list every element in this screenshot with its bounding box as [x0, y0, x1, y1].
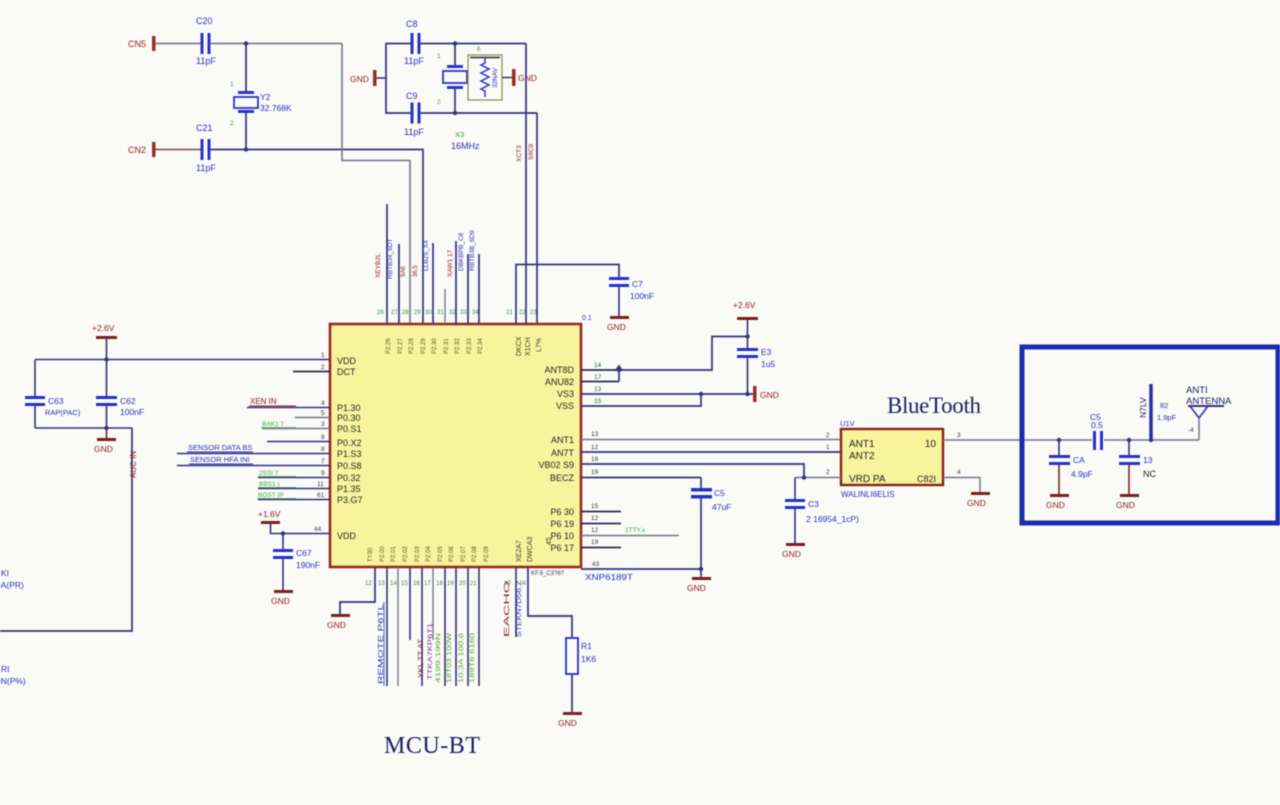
- svg-text:GND: GND: [327, 620, 346, 630]
- wire node down to Y2: [245, 44, 247, 93]
- svg-text:KF.9_C3?6?: KF.9_C3?6?: [531, 571, 565, 577]
- wire bottom pin 5: [421, 567, 423, 686]
- svg-text:P2.03: P2.03: [415, 546, 421, 562]
- svg-text:C20: C20: [196, 16, 213, 26]
- power +2.6V right: [733, 300, 758, 349]
- svg-text:2 16954_1cP): 2 16954_1cP): [806, 514, 859, 524]
- svg-text:28: 28: [402, 310, 409, 316]
- svg-text:P2.08: P2.08: [472, 546, 478, 562]
- svg-text:XEN IN: XEN IN: [250, 397, 277, 406]
- svg-text:32.768K: 32.768K: [260, 103, 292, 113]
- off page label RI (WEPR): [0, 664, 26, 686]
- svg-text:P2.32: P2.32: [455, 338, 461, 354]
- svg-text:Y2: Y2: [260, 92, 271, 102]
- capacitor C9: [404, 91, 424, 137]
- svg-text:BOST IP: BOST IP: [258, 492, 284, 499]
- svg-text:9A(PR): 9A(PR): [0, 580, 24, 590]
- svg-text:E3: E3: [761, 347, 772, 357]
- svg-text:GND: GND: [558, 718, 577, 728]
- svg-text:SENSOR DATA BS: SENSOR DATA BS: [188, 443, 252, 452]
- svg-text:XE2A7: XE2A7: [516, 540, 523, 562]
- ground under C62: [94, 428, 116, 454]
- svg-text:1TTY.x: 1TTY.x: [625, 527, 646, 534]
- svg-text:ANT1: ANT1: [849, 439, 875, 450]
- svg-text:C67: C67: [296, 548, 312, 558]
- svg-text:P2.27: P2.27: [398, 338, 404, 354]
- svg-text:C82I: C82I: [917, 474, 936, 484]
- svg-text:C3: C3: [808, 499, 819, 509]
- svg-text:C62: C62: [120, 396, 136, 406]
- svg-text:189T6 6160: 189T6 6160: [470, 632, 476, 683]
- ground bottom left: [327, 614, 350, 630]
- svg-text:RI: RI: [1, 664, 10, 674]
- ground under L3: [1116, 494, 1139, 510]
- wire R1 to ground: [571, 674, 573, 712]
- svg-text:ANT1: ANT1: [551, 435, 574, 445]
- wire module pin 10 to antenna: [943, 439, 1092, 441]
- svg-text:XNP6189T: XNP6189T: [585, 573, 633, 582]
- svg-text:8: 8: [321, 446, 325, 453]
- svg-text:C9: C9: [406, 91, 418, 101]
- node crystal top: [453, 41, 457, 45]
- wire module pin 4 to gnd: [943, 478, 980, 493]
- svg-text:P3.G7: P3.G7: [337, 495, 363, 505]
- svg-text:YKL TT AT: YKL TT AT: [418, 638, 425, 678]
- svg-text:GND: GND: [687, 583, 706, 593]
- svg-text:P0.X2: P0.X2: [337, 438, 362, 448]
- svg-text:19: 19: [591, 469, 599, 476]
- svg-text:21: 21: [506, 310, 513, 316]
- wire bottom pin 7: [444, 567, 446, 686]
- svg-text:19: 19: [591, 539, 599, 546]
- port CN2: [128, 142, 156, 157]
- VB02 S9 row to module VRD: [581, 464, 804, 478]
- resistor R1: [566, 638, 596, 674]
- svg-text:GND: GND: [760, 390, 779, 400]
- svg-text:XEYB2L: XEYB2L: [375, 253, 382, 278]
- svg-text:12: 12: [591, 444, 599, 451]
- svg-text:CN2: CN2: [128, 145, 146, 155]
- P6.10 row with net label: [581, 535, 679, 537]
- svg-text:P2.05: P2.05: [438, 546, 444, 562]
- wire bottom pin 6: [432, 567, 434, 640]
- svg-text:47uF: 47uF: [712, 502, 731, 512]
- ground right of oscillator: [512, 69, 537, 86]
- svg-text:DWCA3: DWCA3: [527, 537, 534, 562]
- wire top pin extra: [478, 254, 480, 324]
- svg-text:12: 12: [591, 515, 599, 522]
- svg-text:BlueTooth: BlueTooth: [887, 393, 982, 418]
- svg-text:44: 44: [314, 526, 322, 533]
- svg-text:P2.04: P2.04: [426, 546, 432, 562]
- svg-text:ANTI: ANTI: [1186, 385, 1208, 396]
- svg-text:CN5: CN5: [128, 39, 146, 49]
- svg-text:VRD PA: VRD PA: [849, 474, 886, 485]
- svg-text:ANU82: ANU82: [545, 377, 574, 387]
- wire top pin RBTB2: [467, 254, 469, 324]
- svg-text:1.9pF: 1.9pF: [1157, 413, 1177, 422]
- svg-text:43: 43: [592, 561, 600, 568]
- svg-text:GND: GND: [350, 74, 369, 84]
- wire bottom pin 1 to gnd: [340, 567, 375, 614]
- wire bottom rail of decoupling caps: [35, 427, 132, 429]
- svg-text:RBTB3B_6D9: RBTB3B_6D9: [469, 230, 476, 271]
- bottom pin numbers: [365, 581, 526, 587]
- svg-text:X1CH: X1CH: [525, 337, 532, 356]
- ground under R1: [558, 712, 582, 728]
- wire ADC input going off page: [0, 428, 132, 631]
- capacitor E3: [737, 347, 775, 394]
- svg-text:36.5: 36.5: [413, 265, 419, 277]
- svg-text:1u5: 1u5: [761, 359, 775, 369]
- svg-text:VDD: VDD: [337, 531, 357, 541]
- svg-text:P2.31: P2.31: [444, 338, 450, 354]
- svg-text:13: 13: [594, 386, 602, 393]
- svg-text:82: 82: [1160, 401, 1168, 410]
- svg-text:KI: KI: [1, 568, 9, 578]
- MCU U3 main IC body: [330, 324, 581, 567]
- svg-text:VS3: VS3: [557, 389, 574, 399]
- svg-text:X3: X3: [455, 130, 464, 139]
- node power/rail: [104, 357, 108, 361]
- node junction CN2 rail: [244, 147, 248, 151]
- wire Y2 to CN2 rail: [245, 113, 247, 150]
- svg-text:15: 15: [401, 581, 408, 587]
- svg-text:7: 7: [321, 458, 325, 465]
- power +1.6V: [258, 509, 330, 534]
- svg-text:BAK1 7: BAK1 7: [262, 421, 284, 428]
- svg-text:P0.S8: P0.S8: [337, 461, 362, 471]
- capacitor C20: [196, 16, 216, 66]
- net label SENSOR HFA INI: [189, 455, 253, 464]
- svg-text:19: 19: [447, 581, 454, 587]
- svg-text:11pF: 11pF: [404, 127, 424, 137]
- wire resistor box to ground: [502, 77, 512, 79]
- wire bottom pin 10: [478, 567, 480, 686]
- svg-text:XCT3: XCT3: [516, 145, 523, 162]
- svg-text:P6 17: P6 17: [550, 543, 574, 553]
- svg-text:P6 30: P6 30: [550, 507, 574, 517]
- svg-text:11pF: 11pF: [196, 56, 216, 66]
- svg-text:P2.06: P2.06: [449, 546, 455, 562]
- capacitor C5 series: [1090, 412, 1103, 450]
- svg-text:4: 4: [957, 469, 961, 476]
- svg-text:C8: C8: [406, 19, 418, 29]
- svg-text:2: 2: [437, 99, 441, 106]
- P6.19 row: [581, 523, 621, 525]
- svg-text:P2.09: P2.09: [484, 546, 490, 562]
- ground under C67: [271, 590, 293, 606]
- svg-text:1: 1: [321, 352, 325, 359]
- net label XEN IN: [249, 397, 296, 406]
- capacitor C7: [516, 265, 654, 325]
- svg-text:P2.07: P2.07: [461, 546, 467, 562]
- svg-text:C5: C5: [714, 488, 725, 498]
- wire top pin DBKB: [455, 241, 457, 324]
- svg-text:10.3A 100.6: 10.3A 100.6: [459, 632, 465, 683]
- svg-text:32: 32: [449, 310, 456, 316]
- wire bottom pin 3: [397, 567, 399, 686]
- svg-text:GND: GND: [271, 596, 290, 606]
- svg-text:P2.26: P2.26: [386, 338, 392, 354]
- svg-text:CA: CA: [1073, 455, 1085, 465]
- node crystal bottom: [453, 111, 457, 115]
- svg-text:TTKA7KP6T1: TTKA7KP6T1: [427, 622, 434, 680]
- svg-text:P2.00: P2.00: [380, 546, 386, 562]
- capacitor C3: [785, 478, 859, 544]
- svg-text:0.5: 0.5: [1091, 420, 1103, 430]
- svg-text:R1: R1: [581, 641, 592, 651]
- svg-text:U1V: U1V: [840, 419, 855, 428]
- wire P0.S8: [177, 465, 330, 467]
- port CN5: [128, 36, 156, 51]
- wire CN5 to C20: [155, 43, 201, 45]
- svg-text:15: 15: [594, 398, 602, 405]
- wire bottom pin 2: [386, 567, 388, 686]
- wire bottom pin 11: [515, 567, 517, 637]
- resistor R2 in box: [468, 47, 502, 100]
- svg-text:WALINLI6ELIS: WALINLI6ELIS: [841, 490, 895, 499]
- svg-text:23: 23: [530, 310, 537, 316]
- wire gnd to loop: [376, 77, 387, 79]
- capacitor C62: [96, 360, 144, 429]
- svg-text:VB02 S9: VB02 S9: [538, 460, 574, 470]
- svg-text:MCU-BT: MCU-BT: [384, 733, 480, 759]
- ground left of oscillator: [350, 70, 377, 86]
- svg-text:13: 13: [1143, 455, 1153, 465]
- svg-text:1: 1: [230, 81, 234, 88]
- svg-text:4: 4: [321, 400, 325, 407]
- crystal Y2: [230, 81, 292, 127]
- antenna ANT1: [1186, 385, 1232, 440]
- svg-text:P1.30: P1.30: [337, 403, 361, 413]
- ground under C4: [1046, 494, 1069, 510]
- wire VRD PA with C3 tap: [795, 477, 841, 479]
- svg-text:14: 14: [594, 362, 602, 369]
- BECZ row: [581, 477, 701, 479]
- net label BOST green: [257, 492, 296, 499]
- capacitor L3 NC: [1119, 438, 1156, 494]
- capacitor C21: [196, 123, 216, 173]
- net label RSSI green: [258, 470, 296, 477]
- svg-text:13: 13: [378, 581, 385, 587]
- svg-text:3: 3: [321, 421, 325, 428]
- wire ANT80/ANU82 to +2.6V node: [619, 337, 748, 382]
- svg-text:11pF: 11pF: [196, 163, 216, 173]
- svg-text:190nF: 190nF: [296, 560, 320, 570]
- svg-text:10: 10: [925, 439, 937, 450]
- svg-text:32NAV: 32NAV: [492, 67, 499, 88]
- node gnd tap: [104, 426, 108, 430]
- svg-text:BBS1 ): BBS1 ): [259, 481, 280, 488]
- wire P0.32: [258, 477, 330, 479]
- svg-text:N7LV: N7LV: [1138, 397, 1148, 418]
- wire P1.S3: [177, 453, 330, 455]
- P6.17 row: [581, 547, 621, 549]
- svg-text:9N(P%): 9N(P%): [0, 676, 26, 686]
- svg-text:4.9pF: 4.9pF: [1071, 469, 1093, 479]
- svg-text:1K6: 1K6: [581, 654, 596, 664]
- svg-text:GND: GND: [782, 549, 801, 559]
- wire P3.G7: [258, 499, 330, 501]
- svg-text:5: 5: [321, 410, 325, 417]
- svg-text:NC: NC: [1143, 469, 1156, 479]
- svg-text:GND: GND: [94, 444, 113, 454]
- node C67 tap: [281, 531, 285, 535]
- wire P0.S1: [262, 428, 330, 430]
- svg-text:18: 18: [591, 456, 599, 463]
- svg-text:VDD: VDD: [337, 356, 357, 366]
- wire oscillator top rail: [386, 43, 411, 45]
- svg-text:AN7T: AN7T: [551, 448, 575, 458]
- svg-text:16: 16: [413, 581, 420, 587]
- junction arrow: [615, 365, 624, 372]
- AN7I row to module: [581, 451, 841, 453]
- ground right-facing VSS: [753, 386, 779, 402]
- svg-text:P2.01: P2.01: [391, 546, 397, 562]
- wire bottom pin 12 to R1: [528, 567, 572, 638]
- net label BBSI green: [258, 481, 296, 488]
- svg-text:27: 27: [391, 310, 398, 316]
- wire C20 to node, then right: [210, 43, 342, 45]
- svg-text:3: 3: [957, 432, 961, 439]
- wire P0.30: [295, 417, 330, 419]
- svg-text:EACHO: EACHO: [504, 580, 511, 637]
- svg-text:2: 2: [321, 364, 325, 371]
- svg-text:RAP(PAC): RAP(PAC): [45, 408, 81, 417]
- svg-text:S9C9: S9C9: [528, 143, 535, 160]
- svg-text:VSS: VSS: [556, 401, 574, 411]
- svg-text:16MHz: 16MHz: [451, 141, 480, 151]
- wire bottom pin 9: [467, 567, 469, 686]
- bluetooth module U2: [840, 419, 943, 499]
- svg-text:61: 61: [317, 492, 325, 499]
- svg-text:100nF: 100nF: [630, 291, 654, 301]
- svg-text:ANT8D: ANT8D: [544, 365, 574, 375]
- svg-text:100nF: 100nF: [120, 407, 144, 417]
- svg-text:+1.6V: +1.6V: [258, 509, 281, 519]
- svg-text:29: 29: [414, 310, 421, 316]
- svg-text:20: 20: [459, 581, 466, 587]
- wire oscillator left rail: [385, 43, 387, 114]
- wire CN2 to C21: [155, 149, 201, 151]
- svg-text:P1.35: P1.35: [337, 484, 361, 494]
- ground under C3: [782, 543, 805, 559]
- svg-text:P2.30: P2.30: [432, 338, 438, 354]
- svg-text:P2.34: P2.34: [478, 338, 484, 354]
- node junction CN5 rail: [244, 41, 248, 45]
- svg-text:8: 8: [321, 434, 325, 441]
- svg-text:4199.199N: 4199.199N: [436, 633, 442, 683]
- svg-text:12: 12: [591, 527, 599, 534]
- svg-text:30: 30: [425, 310, 432, 316]
- ground under C7: [607, 316, 629, 332]
- svg-text:9: 9: [321, 470, 325, 477]
- svg-text:1: 1: [826, 444, 830, 451]
- svg-text:+2.6V: +2.6V: [733, 300, 756, 310]
- ANU82 row: [581, 381, 619, 383]
- wire oscillator bottom rail: [386, 112, 411, 114]
- wire crystal net XLT3 down to MCU: [525, 44, 527, 325]
- svg-text:15: 15: [591, 503, 599, 510]
- power +2.6V left: [92, 323, 117, 359]
- svg-text:31: 31: [437, 310, 444, 316]
- top inside crystal pin names: [516, 336, 543, 356]
- svg-text:14: 14: [390, 581, 397, 587]
- wire C21 to MCU pin P2 column: [210, 150, 423, 325]
- svg-text:P6 19: P6 19: [550, 519, 574, 529]
- svg-text:GND: GND: [1116, 500, 1135, 510]
- bottom inside pin names: [368, 546, 490, 562]
- capacitor C63: [25, 360, 81, 429]
- svg-text:XAW1 17: XAW1 17: [447, 249, 454, 277]
- svg-text:GND: GND: [967, 498, 986, 508]
- svg-text:45: 45: [546, 537, 553, 545]
- svg-text:+2.6V: +2.6V: [92, 323, 115, 333]
- svg-text:1: 1: [437, 53, 441, 60]
- svg-text:26: 26: [377, 310, 384, 316]
- top inside pin names: [386, 338, 484, 354]
- svg-text:2: 2: [230, 120, 234, 127]
- svg-text:STEKN7D56.7: STEKN7D56.7: [516, 581, 523, 637]
- ground under C9b: [687, 577, 711, 593]
- capacitor C9b 47uF: [691, 478, 731, 578]
- top pin numbers green: [377, 310, 537, 316]
- wire top pin KEYB: [386, 204, 388, 324]
- svg-text:18T03 100W: 18T03 100W: [447, 633, 453, 683]
- svg-text:2: 2: [826, 469, 830, 476]
- bottom inside names right group: [516, 537, 553, 562]
- off page label AI (WEPR): [0, 568, 24, 590]
- capacitor C8: [404, 19, 424, 66]
- svg-text:P0.S1: P0.S1: [337, 424, 362, 434]
- svg-text:9A6: 9A6: [401, 266, 407, 277]
- svg-text:C63: C63: [48, 396, 64, 406]
- net label BAK1 green: [261, 421, 296, 428]
- wire P1.35: [258, 488, 330, 490]
- wire top pin RBTB: [398, 244, 400, 324]
- wire P0.X2: [267, 441, 330, 443]
- svg-text:DKCX: DKCX: [516, 336, 523, 356]
- svg-text:P0.30: P0.30: [337, 413, 361, 423]
- svg-text:33: 33: [460, 310, 467, 316]
- VS3 row to GND: [581, 393, 753, 395]
- wire bottom pin 4: [409, 567, 411, 640]
- capacitor C67: [273, 534, 320, 591]
- svg-text:DCT: DCT: [337, 367, 356, 377]
- svg-text:2SSI 7: 2SSI 7: [259, 470, 279, 477]
- svg-text:GND: GND: [1046, 500, 1065, 510]
- VSS row: [581, 394, 701, 406]
- svg-text:DBKBPB_C8: DBKBPB_C8: [458, 232, 465, 271]
- svg-text:18: 18: [436, 581, 443, 587]
- capacitor C4: [1049, 438, 1093, 494]
- svg-text:P2.33: P2.33: [467, 338, 473, 354]
- svg-text:17: 17: [424, 581, 431, 587]
- svg-text:C7: C7: [632, 279, 643, 289]
- svg-text:P1.S3: P1.S3: [337, 449, 362, 459]
- wire crystal net XLT1 down to MCU: [536, 113, 538, 324]
- P6.30 row: [581, 511, 621, 513]
- svg-text:-4: -4: [1188, 427, 1194, 434]
- svg-text:11: 11: [317, 481, 324, 488]
- svg-text:AUC IN: AUC IN: [129, 451, 138, 478]
- svg-text:GND: GND: [518, 73, 537, 83]
- svg-text:11pF: 11pF: [404, 56, 424, 66]
- svg-text:0.1: 0.1: [582, 315, 592, 322]
- svg-text:P6 10: P6 10: [550, 531, 574, 541]
- net label SENSOR DATA RS: [187, 443, 253, 452]
